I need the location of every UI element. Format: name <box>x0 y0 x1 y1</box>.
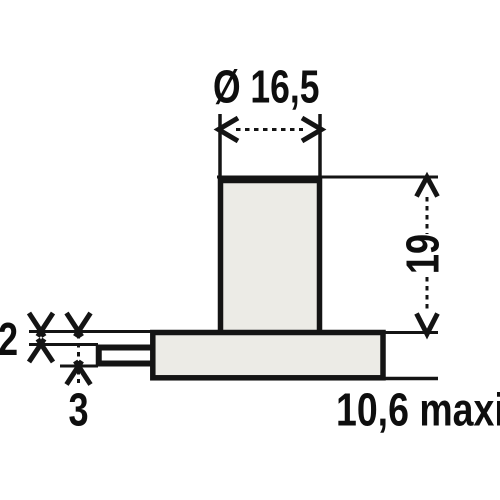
cylinder body (vertical rectangle) <box>221 181 320 334</box>
dim Ø16,5 right extension line <box>318 114 322 180</box>
dim 19 dashed dimension line (upper segment) <box>426 197 429 234</box>
extension line A: flange top, left side (dim 2 / dim 3 upper reference) <box>29 330 153 333</box>
dim 19 dashed dimension line (lower segment) <box>426 277 429 313</box>
dim Ø16,5 dashed dimension line <box>236 128 303 131</box>
dim 19 up arrowhead <box>417 177 438 197</box>
dim Ø16,5 left arrowhead <box>219 118 239 141</box>
flange (horizontal base rectangle) <box>153 333 383 378</box>
svg-text:Ø 16,5: Ø 16,5 <box>213 61 319 113</box>
extension line: flange top, right of flange (19 dim lower reference) <box>384 331 438 334</box>
extension line B: shaft top, left side (dim 2 lower reference) <box>29 343 98 346</box>
dim 19 down arrowhead <box>417 314 438 335</box>
dim 2 lower arrow (X at shaft-top line) <box>29 339 53 362</box>
dim 3 dashed center line <box>77 334 80 383</box>
dim Ø16,5 left extension line <box>218 114 222 180</box>
extension line: flange bottom, right of flange (10,6 maxi reference) <box>384 377 438 381</box>
svg-text:10,6 maxi: 10,6 maxi <box>336 384 500 436</box>
svg-text:19: 19 <box>396 234 448 274</box>
shaft (small white stub at lower left) <box>99 348 155 364</box>
dim 3 upper arrow (X at flange-top line) <box>67 313 91 337</box>
dim 3 lower arrow (X at shaft-bottom line) <box>67 361 91 385</box>
extension line: cylinder top, runs right to the 19 dimension <box>217 176 438 179</box>
svg-text:2: 2 <box>0 313 18 365</box>
extension line C: shaft bottom, left side (dim 3 lower reference) <box>60 365 98 368</box>
svg-text:3: 3 <box>68 383 88 435</box>
dim 2 upper arrow (X at flange-top line) <box>29 313 53 337</box>
dim Ø16,5 right arrowhead <box>302 118 322 141</box>
